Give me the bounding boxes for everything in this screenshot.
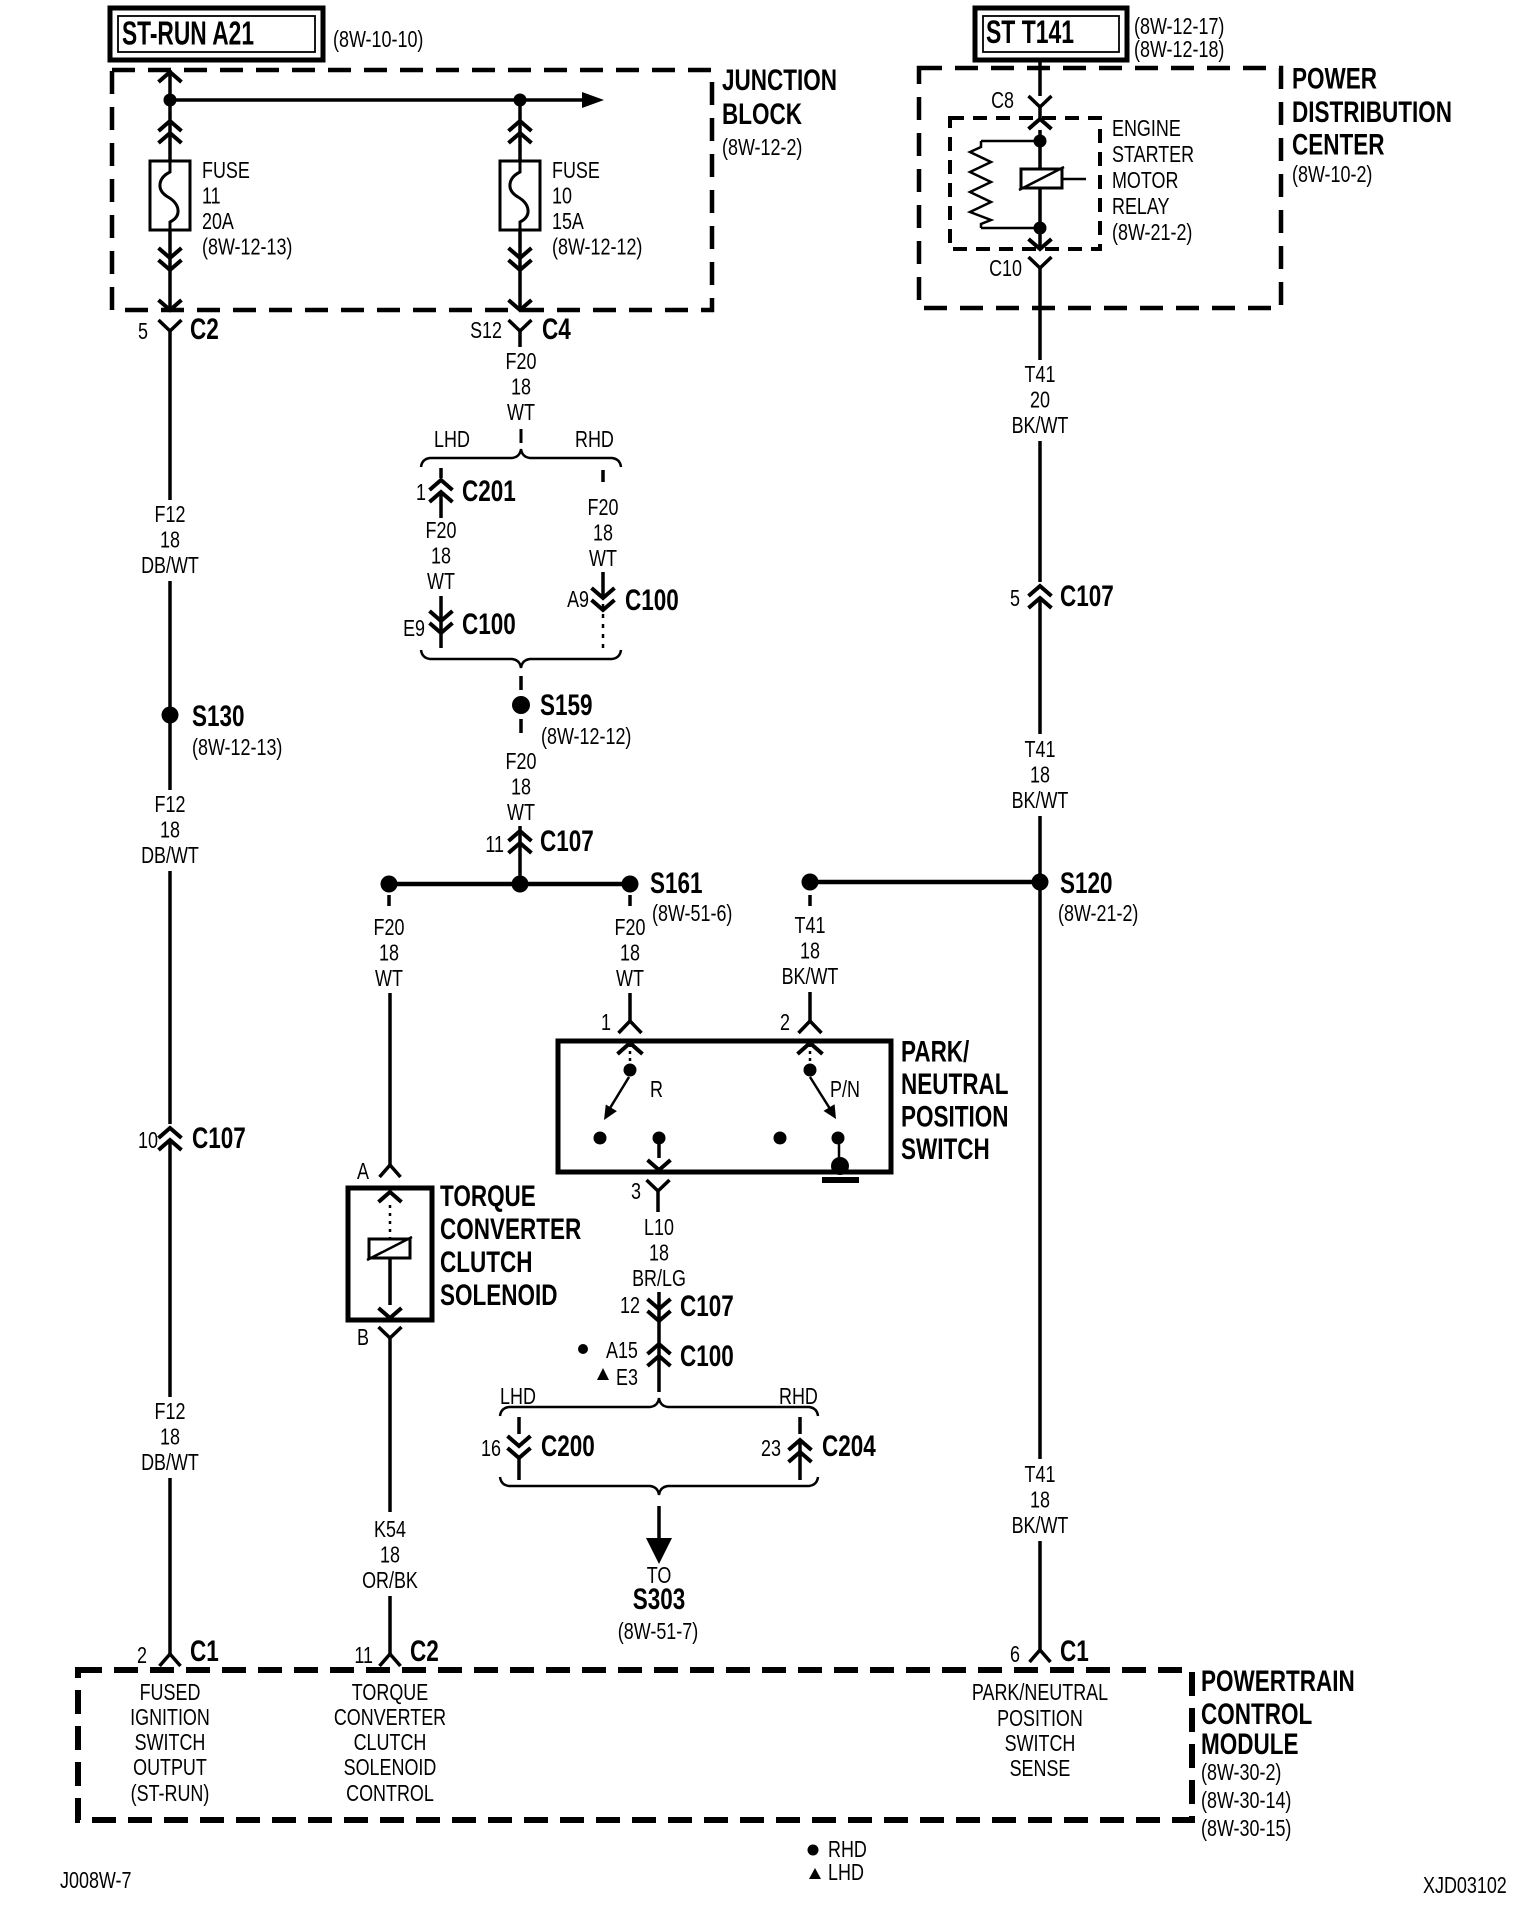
svg-text:18: 18 <box>431 543 451 569</box>
wire down to TCC solenoid <box>388 993 392 1165</box>
node: S161 right dot <box>622 876 639 893</box>
wire below S130 <box>168 723 172 790</box>
pin 10 label <box>138 1127 158 1153</box>
wire label F12 18 DB/WT (3) <box>141 1398 199 1475</box>
chevron out of relay box <box>1029 234 1052 249</box>
svg-text:18: 18 <box>649 1240 669 1266</box>
svg-text:S161: S161 <box>650 867 703 900</box>
dashed stub below S161 left <box>387 895 391 906</box>
connector name C107 (pin 10) <box>192 1122 246 1155</box>
pin 11 label (PCM) <box>354 1642 373 1668</box>
arrow to S303 <box>646 1506 672 1564</box>
PCM title <box>1201 1665 1355 1841</box>
fuse 11 label <box>202 157 292 260</box>
legend RHD dot <box>808 1836 867 1862</box>
pin 5 label <box>138 318 148 344</box>
svg-text:PARK/: PARK/ <box>901 1036 970 1069</box>
svg-text:A: A <box>357 1158 370 1184</box>
svg-text:S120: S120 <box>1060 867 1113 900</box>
connector C8 fork <box>1029 96 1052 118</box>
svg-text:DB/WT: DB/WT <box>141 1449 199 1475</box>
resistor in relay (parallel) <box>970 141 1040 228</box>
splice name S161 <box>650 867 703 900</box>
svg-text:TORQUE: TORQUE <box>440 1180 536 1213</box>
wire below C2 <box>168 346 172 500</box>
svg-text:ST-RUN A21: ST-RUN A21 <box>122 15 254 52</box>
svg-text:CLUTCH: CLUTCH <box>440 1246 533 1279</box>
svg-text:FUSE: FUSE <box>552 157 600 183</box>
svg-text:CONTROL: CONTROL <box>346 1780 434 1806</box>
svg-text:F20: F20 <box>374 914 405 940</box>
svg-text:B: B <box>357 1324 369 1350</box>
labels (8W-12-17) (8W-12-18) <box>1134 13 1224 62</box>
pin 6 label <box>1010 1641 1020 1667</box>
svg-text:F12: F12 <box>155 501 186 527</box>
legend LHD triangle <box>809 1859 864 1885</box>
chevron up at junction block top <box>159 72 182 82</box>
splice name S159 <box>540 689 593 722</box>
wire below fuse 11 with chevrons <box>159 230 182 310</box>
svg-text:12: 12 <box>620 1292 640 1318</box>
svg-text:BK/WT: BK/WT <box>1012 1512 1069 1538</box>
wire down to C107 pin 5 <box>1038 441 1042 582</box>
node: R target contact dot <box>594 1132 607 1145</box>
svg-text:MODULE: MODULE <box>1201 1728 1299 1761</box>
connector C204 chevrons <box>789 1440 812 1480</box>
connector name C4 <box>542 313 571 346</box>
svg-text:C107: C107 <box>680 1290 734 1323</box>
junction block dashed box <box>112 70 712 310</box>
svg-text:15A: 15A <box>552 208 584 234</box>
wire down to PCM pin 11 <box>388 1596 392 1654</box>
dashed stub below S161 right <box>628 895 632 906</box>
wire from coil to TCC box bottom <box>388 1258 392 1305</box>
connector name C100 (E9) <box>462 608 516 641</box>
closing brace merge <box>421 650 621 668</box>
svg-text:F20: F20 <box>506 348 537 374</box>
pin C10 label <box>989 255 1022 281</box>
svg-text:FUSE: FUSE <box>202 157 250 183</box>
svg-text:T41: T41 <box>1025 1461 1056 1487</box>
svg-text:PARK/NEUTRAL: PARK/NEUTRAL <box>972 1679 1108 1705</box>
svg-text:JUNCTION: JUNCTION <box>722 64 837 97</box>
svg-text:16: 16 <box>481 1435 501 1461</box>
connector fork pin 1 <box>619 1021 642 1033</box>
svg-text:C107: C107 <box>1060 580 1114 613</box>
brace split LHD/RHD <box>421 449 621 467</box>
svg-text:2: 2 <box>137 1642 147 1668</box>
svg-text:C1: C1 <box>1060 1635 1089 1668</box>
connector name C107 (pin 12) <box>680 1290 734 1323</box>
svg-text:WT: WT <box>616 965 644 991</box>
chevron out of TCC box <box>379 1308 402 1318</box>
node: pin2 contact dot <box>804 1064 817 1077</box>
connector C107 chevrons (pin 12) <box>648 1292 671 1336</box>
chevron into PNP pin 1 <box>618 1043 643 1063</box>
label (8W-21-2) <box>1058 900 1138 926</box>
wire down to PNP pin 2 <box>808 992 812 1021</box>
wire down to C100 A9 <box>601 572 605 598</box>
wire label F20 18 WT below S159 <box>506 748 537 825</box>
connector C201 chevrons <box>430 480 453 518</box>
pin 2 label <box>137 1642 147 1668</box>
wire label F20 18 WT (RHD) <box>588 494 619 571</box>
TCC solenoid coil <box>367 1237 412 1260</box>
wire label F20 18 WT (PNP branch) <box>615 914 646 991</box>
splice S120 bus line <box>810 880 1040 885</box>
connector C200 chevrons <box>508 1436 531 1480</box>
svg-text:(8W-12-2): (8W-12-2) <box>722 134 802 160</box>
fuse 10 symbol <box>500 161 540 230</box>
svg-text:CLUTCH: CLUTCH <box>354 1729 427 1755</box>
svg-text:18: 18 <box>800 938 820 964</box>
wire with connector chevrons above fuse 11 <box>159 104 182 161</box>
wire below TCC <box>388 1352 392 1512</box>
svg-text:(8W-30-2): (8W-30-2) <box>1201 1759 1281 1785</box>
svg-text:S130: S130 <box>192 700 245 733</box>
svg-text:(8W-51-6): (8W-51-6) <box>652 900 732 926</box>
wire down to S130 <box>168 581 172 714</box>
svg-text:(8W-21-2): (8W-21-2) <box>1058 900 1138 926</box>
svg-text:CONVERTER: CONVERTER <box>440 1213 582 1246</box>
RHD branch wire to C204 <box>798 1417 802 1434</box>
connector fork pin 2 <box>799 1021 822 1033</box>
node: S120 dot <box>1032 874 1049 891</box>
fuse 11 symbol <box>150 161 190 230</box>
svg-text:SOLENOID: SOLENOID <box>344 1754 437 1780</box>
connector C10 fork <box>1029 257 1052 290</box>
svg-text:10: 10 <box>552 183 572 209</box>
wire label F20 18 WT (LHD) <box>426 517 457 594</box>
svg-text:SWITCH: SWITCH <box>901 1133 990 1166</box>
svg-text:(8W-12-18): (8W-12-18) <box>1134 36 1224 62</box>
svg-text:BK/WT: BK/WT <box>1012 412 1069 438</box>
connector name C107 <box>1060 580 1114 613</box>
connector C1 fork at PCM (left) <box>160 1654 181 1666</box>
svg-text:POWERTRAIN: POWERTRAIN <box>1201 1665 1355 1698</box>
TCC solenoid label <box>440 1180 582 1312</box>
fuse 10 label <box>552 157 642 260</box>
connector fork B <box>379 1327 402 1352</box>
connector C2 fork at PCM <box>380 1654 401 1666</box>
connector name C100 (A15/E3) <box>680 1340 734 1373</box>
chevron into PNP pin 2 <box>798 1043 823 1063</box>
svg-text:F20: F20 <box>426 517 457 543</box>
splice name S303 <box>633 1583 686 1616</box>
svg-text:F20: F20 <box>506 748 537 774</box>
svg-text:20A: 20A <box>202 208 234 234</box>
svg-text:(8W-12-12): (8W-12-12) <box>541 723 631 749</box>
node: pin1 contact dot <box>624 1064 637 1077</box>
svg-text:SENSE: SENSE <box>1010 1755 1071 1781</box>
svg-text:C100: C100 <box>625 584 679 617</box>
PNP switch title <box>901 1036 1009 1167</box>
dashed stub to S159 <box>519 676 523 690</box>
connector box ST-RUN A21 <box>110 8 323 60</box>
svg-text:18: 18 <box>160 817 180 843</box>
node: splice dot left on JB bus <box>164 94 177 107</box>
svg-text:LHD: LHD <box>828 1859 864 1885</box>
pin E9 label <box>403 615 425 641</box>
svg-text:A15: A15 <box>606 1337 638 1363</box>
wire label T41 18 BK/WT (PNP branch) <box>782 912 839 989</box>
svg-text:(8W-21-2): (8W-21-2) <box>1112 219 1192 245</box>
relay label <box>1112 115 1194 245</box>
svg-text:STARTER: STARTER <box>1112 141 1194 167</box>
connector name C107 (pin 11) <box>540 825 594 858</box>
svg-text:F12: F12 <box>155 791 186 817</box>
node: S130 splice dot <box>162 707 179 724</box>
connector name C100 (A9) <box>625 584 679 617</box>
svg-text:K54: K54 <box>374 1516 406 1542</box>
closing brace merge (lower) <box>500 1477 818 1495</box>
svg-text:(8W-51-7): (8W-51-7) <box>618 1618 698 1644</box>
RHD branch dashed stub <box>601 470 605 482</box>
svg-text:L10: L10 <box>644 1214 674 1240</box>
footer J008W-7 <box>60 1867 132 1893</box>
label P/N <box>830 1076 860 1102</box>
svg-text:10: 10 <box>138 1127 158 1153</box>
LHD branch wire to C200 <box>517 1417 521 1434</box>
connector C1 fork at PCM (right) <box>1030 1650 1051 1662</box>
label (8W-12-12) <box>541 723 631 749</box>
wire down through PDC border <box>1038 290 1042 360</box>
svg-text:RHD: RHD <box>779 1383 818 1409</box>
splice name S120 <box>1060 867 1113 900</box>
node: P/N target contact dot <box>832 1132 845 1145</box>
svg-text:18: 18 <box>511 374 531 400</box>
svg-text:DB/WT: DB/WT <box>141 552 199 578</box>
pin 3 label <box>631 1178 641 1204</box>
wire from relay box top to coil node <box>1038 130 1042 169</box>
svg-text:J008W-7: J008W-7 <box>60 1867 132 1893</box>
svg-text:WT: WT <box>507 399 535 425</box>
svg-text:SWITCH: SWITCH <box>135 1729 206 1755</box>
legend dot and pin A15 <box>578 1337 638 1363</box>
label RHD <box>575 426 614 452</box>
svg-text:POSITION: POSITION <box>997 1705 1083 1731</box>
wire label F20 18 WT (TCC branch) <box>374 914 405 991</box>
pin A9 label <box>567 586 589 612</box>
PCM pin 2 function label <box>130 1679 210 1806</box>
svg-text:T41: T41 <box>1025 736 1056 762</box>
svg-text:20: 20 <box>1030 387 1050 413</box>
svg-text:CONTROL: CONTROL <box>1201 1698 1312 1731</box>
svg-text:C107: C107 <box>540 825 594 858</box>
svg-text:WT: WT <box>589 545 617 571</box>
svg-text:S159: S159 <box>540 689 593 722</box>
PCM pin 6 function label <box>972 1679 1108 1781</box>
node: ground dot on box edge <box>831 1157 849 1175</box>
svg-text:WT: WT <box>375 965 403 991</box>
footer XJD03102 <box>1423 1872 1507 1898</box>
svg-text:18: 18 <box>160 1424 180 1450</box>
pin B label <box>357 1324 369 1350</box>
label TO <box>647 1562 672 1588</box>
connector C100 chevrons (A9) <box>592 588 615 610</box>
svg-text:BR/LG: BR/LG <box>632 1265 686 1291</box>
svg-text:LHD: LHD <box>500 1383 536 1409</box>
LHD branch wire <box>439 468 443 478</box>
pin 11 label <box>485 831 504 857</box>
svg-text:(8W-10-2): (8W-10-2) <box>1292 161 1372 187</box>
node: relay bottom junction dot <box>1034 222 1047 235</box>
svg-text:XJD03102: XJD03102 <box>1423 1872 1507 1898</box>
label R <box>650 1076 663 1102</box>
connector name C1 (right) <box>1060 1635 1089 1668</box>
wire pin3 contact down with chevron <box>648 1144 671 1170</box>
chevron into TCC box <box>379 1192 402 1202</box>
svg-text:T41: T41 <box>795 912 826 938</box>
svg-text:18: 18 <box>511 774 531 800</box>
svg-text:1: 1 <box>416 479 426 505</box>
label (8W-10-10) <box>333 26 423 52</box>
svg-text:MOTOR: MOTOR <box>1112 167 1178 193</box>
svg-text:(8W-30-15): (8W-30-15) <box>1201 1815 1291 1841</box>
svg-text:POWER: POWER <box>1292 63 1377 96</box>
pin 1 label (PNP) <box>601 1009 611 1035</box>
dashed stub below S120 branch <box>808 895 812 906</box>
connector C107 chevrons (pin 5) <box>1029 586 1052 640</box>
svg-text:18: 18 <box>160 527 180 553</box>
wire below fuse 10 with chevrons <box>509 230 532 310</box>
wire label F12 18 DB/WT <box>141 501 199 578</box>
splice S161 bus line <box>389 882 630 887</box>
switch blade R with arrowhead <box>604 1077 629 1120</box>
legend triangle and pin E3 <box>597 1364 638 1390</box>
dashed stub to LHD/RHD brace <box>520 429 523 443</box>
switch blade P/N with arrowhead <box>810 1077 836 1119</box>
node: S161 left dot <box>381 876 398 893</box>
node: splice dot right on JB bus <box>514 94 527 107</box>
label (8W-51-7) <box>618 1618 698 1644</box>
connector C107 chevrons (pin 11) <box>509 826 532 882</box>
svg-text:18: 18 <box>380 1542 400 1568</box>
svg-text:S12: S12 <box>470 317 502 343</box>
svg-text:SOLENOID: SOLENOID <box>440 1279 558 1312</box>
node: relay top junction dot <box>1034 135 1047 148</box>
wire: JB bus arrow to right <box>520 92 604 108</box>
svg-text:C2: C2 <box>190 313 219 346</box>
wire label T41 18 BK/WT lower <box>1012 1461 1069 1538</box>
svg-text:POSITION: POSITION <box>901 1101 1009 1134</box>
torque converter clutch solenoid box <box>348 1188 432 1320</box>
svg-text:DB/WT: DB/WT <box>141 842 199 868</box>
svg-text:C200: C200 <box>541 1430 595 1463</box>
connector name C201 <box>462 475 516 508</box>
wire down to PCM pin 6 <box>1038 1541 1042 1650</box>
svg-text:2: 2 <box>780 1009 790 1035</box>
splice name S130 <box>192 700 245 733</box>
label (8W-51-6) <box>652 900 732 926</box>
wire down to C107 pin 10 <box>168 871 172 1124</box>
label LHD <box>434 426 470 452</box>
svg-text:OR/BK: OR/BK <box>362 1567 418 1593</box>
label LHD (lower) <box>500 1383 536 1409</box>
wire with connector chevrons above fuse 10 <box>509 104 532 161</box>
svg-text:11: 11 <box>485 831 504 857</box>
connector C100 chevrons (E9) <box>430 611 453 633</box>
label RHD (lower) <box>779 1383 818 1409</box>
brace split LHD/RHD (lower) <box>500 1398 818 1416</box>
power distribution center title <box>1292 63 1452 188</box>
connector name C204 <box>822 1430 876 1463</box>
pin A label <box>357 1158 370 1184</box>
connector name C2 (PCM) <box>410 1635 439 1668</box>
wire down from C107 <box>1038 640 1042 734</box>
label (8W-12-13) <box>192 734 282 760</box>
wire label F12 18 DB/WT (2) <box>141 791 199 868</box>
svg-text:11: 11 <box>202 183 221 209</box>
svg-text:DISTRIBUTION: DISTRIBUTION <box>1292 96 1452 129</box>
pin 1 label C201 <box>416 479 426 505</box>
svg-text:18: 18 <box>379 940 399 966</box>
svg-text:F20: F20 <box>588 494 619 520</box>
svg-text:CENTER: CENTER <box>1292 129 1385 162</box>
wire: ST T141 down to relay <box>1038 60 1042 96</box>
junction block title <box>722 64 837 160</box>
wire down to C100 E9 <box>439 596 443 648</box>
svg-text:WT: WT <box>507 799 535 825</box>
power distribution center dashed box <box>919 68 1281 308</box>
svg-text:C2: C2 <box>410 1635 439 1668</box>
wire down to PCM pin 2 <box>168 1478 172 1654</box>
connector fork pin 3 <box>647 1180 670 1212</box>
pin 2 label (PNP) <box>780 1009 790 1035</box>
svg-text:(8W-30-14): (8W-30-14) <box>1201 1787 1291 1813</box>
svg-text:11: 11 <box>354 1642 373 1668</box>
svg-text:(8W-12-13): (8W-12-13) <box>202 234 292 260</box>
wire to ground dot <box>838 1144 841 1162</box>
svg-text:C100: C100 <box>462 608 516 641</box>
svg-text:18: 18 <box>620 940 640 966</box>
connector C2 fork at JB output <box>159 320 182 346</box>
connector C100 chevrons (A15/E3) <box>648 1336 671 1392</box>
svg-text:1: 1 <box>601 1009 611 1035</box>
wire label F20 18 WT below C4 <box>506 348 537 425</box>
svg-text:P/N: P/N <box>830 1076 860 1102</box>
connector C4 fork at JB output <box>509 320 532 347</box>
wire label T41 18 BK/WT <box>1012 736 1069 813</box>
svg-text:BLOCK: BLOCK <box>722 98 802 131</box>
svg-text:C1: C1 <box>190 1635 219 1668</box>
svg-text:C107: C107 <box>192 1122 246 1155</box>
svg-text:SWITCH: SWITCH <box>1005 1730 1076 1756</box>
svg-text:RELAY: RELAY <box>1112 193 1170 219</box>
wire label T41 20 BK/WT <box>1012 361 1069 438</box>
svg-text:TORQUE: TORQUE <box>352 1679 428 1705</box>
wire: JB horizontal bus <box>170 98 520 102</box>
chevron into relay box <box>1029 119 1052 129</box>
svg-text:IGNITION: IGNITION <box>130 1704 210 1730</box>
svg-text:C204: C204 <box>822 1430 876 1463</box>
svg-text:C100: C100 <box>680 1340 734 1373</box>
pin 12 label <box>620 1292 640 1318</box>
svg-text:CONVERTER: CONVERTER <box>334 1704 446 1730</box>
dashed stub below S159 <box>519 719 523 733</box>
node: S159 splice dot <box>512 696 530 714</box>
wire label K54 18 OR/BK <box>362 1516 418 1593</box>
svg-text:E9: E9 <box>403 615 425 641</box>
svg-text:OUTPUT: OUTPUT <box>133 1754 207 1780</box>
pin S12 label <box>470 317 502 343</box>
svg-text:E3: E3 <box>616 1364 638 1390</box>
pin C8 label <box>991 87 1014 113</box>
svg-text:(ST-RUN): (ST-RUN) <box>131 1780 210 1806</box>
svg-text:T41: T41 <box>1025 361 1056 387</box>
connector fork A <box>380 1165 401 1177</box>
svg-text:LHD: LHD <box>434 426 470 452</box>
